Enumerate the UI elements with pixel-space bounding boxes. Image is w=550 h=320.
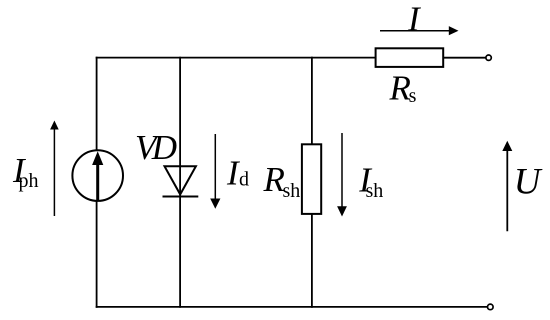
current source internal arrow [92,151,103,200]
wire shunt branch lower segment [311,213,313,308]
svg-text:s: s [409,85,417,107]
wire diode branch [179,57,181,308]
wire shunt branch upper segment [311,57,313,145]
svg-text:I: I [407,0,422,38]
current source Iph circle [72,150,123,201]
arrow Iph direction [50,121,59,217]
svg-text:U: U [514,162,543,203]
wire bottom horizontal [96,306,488,308]
wire left branch lower segment [96,200,98,308]
wire left branch upper segment [96,57,98,152]
terminal node bottom right [488,304,494,310]
svg-text:ph: ph [19,170,39,192]
wire top horizontal [96,57,376,59]
resistor Rs box [376,48,444,67]
svg-text:sh: sh [283,180,301,202]
svg-text:VD: VD [135,128,177,167]
svg-text:R: R [389,69,411,108]
arrow U direction [502,141,512,232]
diode VD cathode bar [163,196,199,198]
resistor Rsh box [302,144,321,214]
svg-text:d: d [239,168,249,190]
arrow Id direction [210,134,220,209]
terminal node top right [486,55,491,60]
svg-text:sh: sh [366,180,384,202]
arrow Ish direction [337,133,347,217]
diode VD triangle [165,166,196,194]
wire from Rs to output terminal [443,57,486,59]
arrow I direction top right [380,26,459,35]
